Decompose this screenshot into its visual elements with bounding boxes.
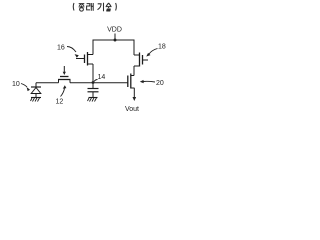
wire right branch upper [133, 40, 135, 56]
svg-text:Vout: Vout [125, 106, 139, 113]
transistor 20 [128, 74, 135, 89]
output arrowhead [133, 97, 137, 101]
wire transistor 12 to diode [36, 82, 59, 84]
wire output [133, 88, 135, 97]
title (종래 기술) [73, 3, 116, 11]
capacitor C [88, 88, 99, 90]
wire diode to ground [35, 94, 37, 98]
node 14 dot [92, 81, 95, 84]
FD wire left (node 14 to transistor 12) [70, 82, 93, 84]
diode 10 (photodiode, cathode up) [31, 87, 41, 94]
wire capacitor to ground [92, 92, 94, 98]
svg-text:20: 20 [156, 80, 164, 87]
wire node to capacitor [92, 83, 94, 89]
wire VDD rail [93, 39, 135, 41]
svg-text:VDD: VDD [107, 27, 122, 34]
ground (under diode) [31, 98, 42, 102]
transistor 16 [76, 52, 93, 66]
transistor 18 (mirrored, gate right) [134, 53, 148, 67]
ground (under capacitor) [88, 98, 98, 102]
wire 18 source to 20 drain [133, 66, 135, 76]
svg-text:16: 16 [57, 45, 65, 52]
svg-text:12: 12 [56, 99, 64, 106]
junction dot VDD [114, 39, 117, 42]
FD wire right (node 14 to gate of 20) [93, 82, 128, 84]
transistor 12 [58, 66, 71, 83]
svg-text:14: 14 [98, 74, 106, 81]
wire VDD stub [114, 34, 116, 41]
wire down to diode 10 [35, 83, 37, 87]
svg-text:18: 18 [158, 44, 166, 51]
wire left branch lower (16 drain to node 14) [92, 64, 94, 83]
svg-text:10: 10 [12, 81, 20, 88]
wire left branch upper [92, 40, 94, 55]
